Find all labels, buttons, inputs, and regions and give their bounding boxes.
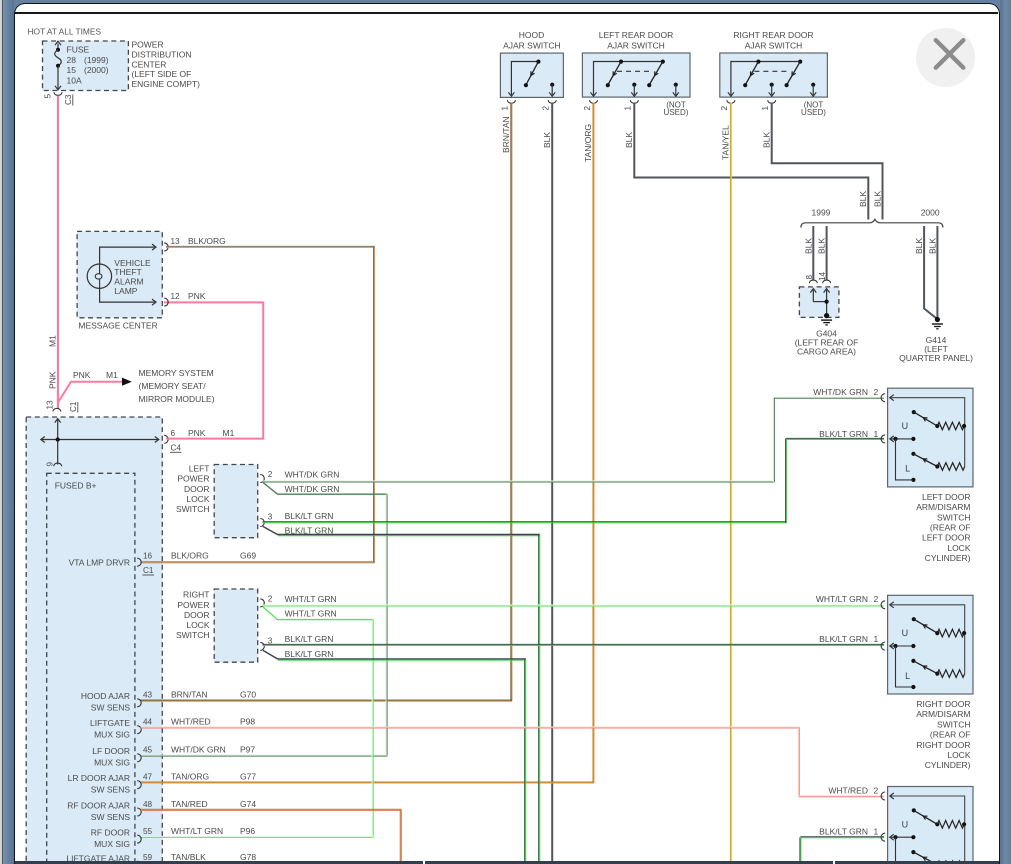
svg-text:BLK: BLK [624, 132, 634, 148]
wire BRN/TAN hood pin1 to module pin 43 (G70) [141, 103, 513, 702]
svg-text:BLK/LT GRN: BLK/LT GRN [285, 634, 334, 644]
svg-text:SW SENS: SW SENS [91, 785, 131, 795]
svg-text:MESSAGE CENTER: MESSAGE CENTER [78, 320, 157, 330]
right door pin 1 connector [881, 642, 885, 650]
wire BLK left rear pin1 to ground brace [634, 103, 868, 220]
wire PNK pin 6 to message center pin 12 [164, 302, 263, 438]
svg-text:PNK: PNK [73, 370, 91, 380]
svg-text:RIGHT: RIGHT [183, 590, 209, 600]
svg-text:1: 1 [761, 106, 770, 111]
svg-text:M1: M1 [106, 370, 118, 380]
svg-text:HOT AT ALL TIMES: HOT AT ALL TIMES [28, 27, 102, 37]
svg-text:FUSED B+: FUSED B+ [55, 481, 97, 491]
power distribution center fuse box [43, 41, 129, 91]
svg-text:SWITCH: SWITCH [176, 630, 210, 640]
svg-text:BLK/ORG: BLK/ORG [171, 551, 209, 561]
left gray edge [0, 0, 2, 864]
branch wire PNK to memory system [58, 382, 122, 403]
svg-text:G77: G77 [240, 772, 256, 782]
module pin 43 BRN/TAN G70 [81, 690, 256, 713]
wire BLK from hood pin2 down to bottom [551, 103, 553, 862]
left door pin 2 connector [881, 394, 885, 402]
svg-text:RF DOOR AJAR: RF DOOR AJAR [67, 800, 130, 810]
svg-text:14: 14 [818, 271, 827, 281]
svg-text:AJAR SWITCH: AJAR SWITCH [503, 40, 561, 50]
svg-text:2: 2 [542, 106, 551, 111]
svg-text:DOOR: DOOR [184, 610, 210, 620]
wire WHT/DK GRN (lower) pin2 to module pin 45 [141, 483, 388, 757]
svg-text:2: 2 [720, 106, 729, 111]
right door pin 2 connector [881, 601, 885, 609]
hood switch pin 2 connector [548, 100, 556, 103]
wire BLK/LT GRN from bottom to liftgate arm/disarm pin 1 [800, 837, 884, 862]
svg-text:C4: C4 [171, 444, 182, 453]
wire BLK 1999-b to G404 pin 14 [826, 226, 828, 281]
svg-text:WHT/LT GRN: WHT/LT GRN [285, 594, 337, 604]
label G414 (LEFT QUARTER PANEL) [899, 335, 973, 363]
svg-text:QUARTER PANEL): QUARTER PANEL) [899, 353, 973, 363]
svg-text:1: 1 [624, 106, 633, 111]
svg-text:48: 48 [143, 800, 153, 809]
wire TAN/ORG left rear pin2 to module pin 47 (G77) [141, 103, 595, 784]
svg-text:ARM/DISARM: ARM/DISARM [916, 709, 970, 719]
svg-text:TAN/ORG: TAN/ORG [171, 772, 209, 782]
right rear switch pin 2 connector [727, 100, 735, 103]
label MEMORY SYSTEM (MEMORY SEAT/ MIRROR MODULE) [139, 368, 215, 404]
connector C1 at module pin 13 [46, 400, 79, 413]
pin 9 connector on FUSED B+ box [54, 463, 62, 466]
label RIGHT POWER DOOR LOCK SWITCH [176, 590, 210, 640]
svg-text:MUX SIG: MUX SIG [94, 839, 130, 849]
svg-text:SW SENS: SW SENS [91, 812, 131, 822]
svg-text:BLK: BLK [817, 238, 827, 254]
svg-text:WHT/RED: WHT/RED [171, 717, 211, 727]
wire WHT/DK GRN (upper) pin2 to left arm/disarm pin 2 [263, 397, 885, 482]
svg-text:C3: C3 [64, 94, 73, 105]
wire TAN/YEL right rear pin2 down to bottom [730, 103, 731, 862]
svg-text:P97: P97 [240, 745, 255, 755]
right door lock switch pin 2 connector [260, 599, 264, 607]
svg-text:BLK/LT GRN: BLK/LT GRN [819, 827, 868, 837]
svg-text:DOOR: DOOR [184, 484, 210, 494]
left rear switch pin 1 connector [630, 100, 638, 103]
svg-text:2: 2 [874, 786, 879, 796]
wire BLK right rear pin1 to ground brace [772, 103, 883, 220]
wire BLK/LT GRN (lower) pin3 down at x539 [263, 527, 540, 862]
arrow to memory system [122, 378, 132, 386]
svg-text:55: 55 [143, 827, 153, 836]
svg-text:8: 8 [805, 275, 814, 280]
module pin 45 WHT/DK GRN P97 [92, 745, 255, 768]
svg-text:10A: 10A [67, 75, 82, 85]
svg-text:(2000): (2000) [84, 65, 109, 75]
svg-text:BLK/ORG: BLK/ORG [188, 236, 226, 246]
svg-text:MUX SIG: MUX SIG [94, 730, 130, 740]
wire BLK/LT GRN (lower) pin3 down at x525 [263, 650, 526, 861]
svg-text:44: 44 [143, 718, 153, 727]
bottom dark toolbar [15, 861, 999, 864]
module pin 44 WHT/RED P98 [90, 717, 255, 740]
wire BLK/LT GRN (upper) pin3 to left arm/disarm pin 1 [263, 438, 885, 522]
svg-text:BLK: BLK [914, 238, 924, 254]
svg-text:WHT/LT GRN: WHT/LT GRN [816, 594, 868, 604]
svg-text:1: 1 [874, 827, 879, 837]
module pin 16 connector C1, VTA LMP DRVR [69, 551, 257, 576]
wire WHT/RED pin 44 to liftgate arm/disarm pin 2 (P98) [141, 727, 885, 797]
message center pin 13 connector [164, 236, 226, 251]
hood switch pin 1 connector [507, 100, 515, 103]
wire BLK/ORG from message center pin 13 to module pin 16 (G69) [141, 246, 376, 563]
module pin 59 TAN/BLK G78 [66, 852, 256, 864]
svg-text:LAMP: LAMP [114, 286, 137, 296]
svg-text:LF DOOR: LF DOOR [92, 746, 130, 756]
module pin 55 WHT/LT GRN P96 [91, 826, 256, 849]
svg-text:SWITCH: SWITCH [937, 719, 971, 729]
liftgate pin 1 connector [881, 833, 885, 841]
svg-text:47: 47 [143, 773, 153, 782]
year split brace [801, 219, 943, 227]
svg-text:1999: 1999 [812, 207, 831, 217]
svg-text:LR DOOR AJAR: LR DOOR AJAR [68, 773, 130, 783]
svg-text:2: 2 [268, 594, 273, 603]
svg-text:2000: 2000 [921, 207, 940, 217]
connector C4 pin 6 PNK M1 [164, 428, 234, 453]
svg-text:2: 2 [874, 594, 879, 604]
wire TAN/RED pin 48 down (G74) [141, 809, 402, 861]
right rear switch pin 1 connector [768, 100, 776, 103]
svg-text:TAN/ORG: TAN/ORG [583, 124, 593, 162]
left door arm/disarm switch box [888, 388, 973, 487]
svg-text:RIGHT REAR DOOR: RIGHT REAR DOOR [733, 30, 813, 40]
svg-text:2: 2 [268, 470, 273, 479]
svg-text:LOCK: LOCK [186, 494, 209, 504]
svg-text:LEFT DOOR: LEFT DOOR [922, 533, 971, 543]
svg-text:BLK: BLK [872, 191, 882, 207]
svg-text:SW SENS: SW SENS [91, 703, 131, 713]
label LEFT POWER DOOR LOCK SWITCH [176, 464, 210, 514]
FUSED B+ inner dashed box [47, 473, 135, 864]
svg-text:MIRROR MODULE): MIRROR MODULE) [139, 394, 215, 404]
module pin 48 TAN/RED G74 [67, 799, 256, 822]
svg-text:BLK/LT GRN: BLK/LT GRN [285, 649, 334, 659]
svg-text:WHT/LT GRN: WHT/LT GRN [285, 608, 337, 618]
svg-text:MUX SIG: MUX SIG [94, 758, 130, 768]
connector C3 at fuse output, pin 5 [44, 92, 74, 105]
svg-text:13: 13 [46, 400, 55, 410]
svg-text:RIGHT DOOR: RIGHT DOOR [916, 699, 970, 709]
svg-text:SWITCH: SWITCH [937, 512, 971, 522]
svg-text:ARM/DISARM: ARM/DISARM [916, 502, 970, 512]
right power door lock switch dashed box [214, 589, 258, 662]
close (X) button [916, 28, 975, 87]
label VEHICLE THEFT ALARM LAMP [114, 258, 151, 296]
left rear switch pin 2 connector [590, 100, 598, 103]
svg-text:16: 16 [143, 552, 153, 561]
svg-text:AJAR SWITCH: AJAR SWITCH [607, 40, 665, 50]
svg-text:BLK: BLK [761, 132, 771, 148]
module pin 47 TAN/ORG G77 [68, 772, 257, 795]
svg-text:ENGINE COMPT): ENGINE COMPT) [132, 79, 201, 89]
wire BLK 2000-a to G414 [924, 226, 937, 319]
svg-text:L: L [905, 464, 910, 474]
svg-text:LIFTGATE: LIFTGATE [90, 718, 130, 728]
right door lock switch pin 3 connector [260, 642, 264, 650]
module internal arrow up from pin 13 [57, 420, 59, 465]
svg-text:RIGHT DOOR: RIGHT DOOR [916, 740, 970, 750]
svg-text:WHT/DK GRN: WHT/DK GRN [285, 470, 340, 480]
svg-text:1: 1 [874, 429, 879, 439]
svg-text:BLK/LT GRN: BLK/LT GRN [285, 511, 334, 521]
wire WHT/LT GRN (upper) pin2 to right arm/disarm pin 2 [263, 605, 885, 606]
right gray edge [1010, 0, 1011, 864]
wire BLK 1999-a to G404 pin 8 [812, 226, 814, 281]
hood ajar switch [500, 30, 563, 98]
top black rule [15, 12, 998, 14]
vehicle theft alarm lamp circuit wire [100, 247, 155, 264]
svg-text:LOCK: LOCK [186, 620, 209, 630]
svg-text:DISTRIBUTION: DISTRIBUTION [132, 49, 192, 59]
svg-text:M1: M1 [223, 428, 235, 438]
svg-text:BLK: BLK [803, 238, 813, 254]
svg-text:TAN/YEL: TAN/YEL [720, 125, 730, 160]
svg-text:G74: G74 [240, 799, 256, 809]
svg-text:43: 43 [143, 691, 153, 700]
svg-text:LEFT DOOR: LEFT DOOR [922, 492, 971, 502]
svg-text:2: 2 [874, 387, 879, 397]
connectors at G404 [809, 280, 817, 283]
G404 internal wires and ground [810, 289, 832, 325]
svg-text:BLK/LT GRN: BLK/LT GRN [285, 525, 334, 535]
svg-text:USED): USED) [801, 108, 826, 117]
svg-text:LEFT: LEFT [189, 464, 210, 474]
svg-text:G69: G69 [240, 551, 256, 561]
svg-text:CYLINDER): CYLINDER) [925, 760, 971, 770]
svg-text:USED): USED) [664, 108, 689, 117]
svg-text:CENTER: CENTER [132, 59, 167, 69]
svg-text:13: 13 [171, 237, 181, 246]
svg-text:C1: C1 [69, 401, 78, 412]
left rear door ajar switch [582, 30, 690, 97]
wire BLK/LT GRN (upper) pin3 to right arm/disarm pin 1 [263, 644, 885, 645]
right rear door ajar switch [720, 30, 828, 97]
liftgate pin 2 connector [881, 792, 885, 800]
label G404 (LEFT REAR OF CARGO AREA) [795, 329, 859, 357]
junction in module [56, 437, 60, 441]
caption LEFT DOOR ARM/DISARM SWITCH [916, 492, 971, 563]
left door lock switch pin 3 connector [260, 519, 264, 527]
svg-text:BRN/TAN: BRN/TAN [501, 116, 511, 153]
svg-text:BLK: BLK [927, 238, 937, 254]
svg-text:POWER: POWER [177, 474, 209, 484]
svg-text:9: 9 [46, 462, 55, 467]
svg-text:VTA LMP DRVR: VTA LMP DRVR [69, 558, 130, 568]
svg-text:HOOD AJAR: HOOD AJAR [81, 691, 130, 701]
svg-text:1: 1 [874, 634, 879, 644]
svg-text:3: 3 [268, 513, 273, 522]
svg-text:PNK: PNK [188, 291, 206, 301]
svg-text:PNK: PNK [48, 371, 58, 389]
message center pin 12 connector [164, 291, 206, 306]
left blue strip [3, 0, 14, 864]
svg-text:U: U [902, 421, 909, 431]
svg-text:BLK/LT GRN: BLK/LT GRN [819, 634, 868, 644]
svg-text:(1999): (1999) [84, 55, 109, 65]
svg-text:U: U [902, 628, 909, 638]
svg-text:15: 15 [67, 65, 77, 75]
svg-text:2: 2 [583, 106, 592, 111]
svg-text:WHT/DK GRN: WHT/DK GRN [171, 745, 226, 755]
svg-text:CYLINDER): CYLINDER) [925, 553, 971, 563]
top blue sliver [0, 0, 1011, 17]
svg-text:1: 1 [501, 106, 510, 111]
wire BLK 2000-b to G414 [936, 226, 938, 319]
svg-text:CARGO AREA): CARGO AREA) [797, 347, 856, 357]
svg-text:(REAR OF: (REAR OF [930, 730, 971, 740]
svg-text:SWITCH: SWITCH [176, 504, 210, 514]
wire WHT/LT GRN (lower) pin2 to module pin 55 [141, 607, 374, 838]
svg-text:12: 12 [171, 292, 181, 301]
svg-text:G70: G70 [240, 690, 256, 700]
svg-text:5: 5 [44, 94, 53, 99]
ground G414 [935, 317, 940, 322]
svg-text:POWER: POWER [177, 600, 209, 610]
svg-text:WHT/LT GRN: WHT/LT GRN [171, 826, 223, 836]
svg-text:HOOD: HOOD [519, 30, 545, 40]
module internal horizontal bus with arrows [42, 439, 158, 441]
svg-text:MEMORY SYSTEM: MEMORY SYSTEM [139, 368, 214, 378]
svg-text:LOCK: LOCK [947, 543, 970, 553]
svg-text:BLK: BLK [858, 191, 868, 207]
left door pin 1 connector [881, 435, 885, 443]
fuse text FUSE 28 (1999) 15 (2000) 10A [67, 44, 109, 85]
svg-text:BLK: BLK [542, 132, 552, 148]
svg-text:WHT/DK GRN: WHT/DK GRN [285, 484, 340, 494]
svg-text:P98: P98 [240, 717, 255, 727]
left power door lock switch dashed box [214, 465, 258, 538]
svg-text:6: 6 [171, 429, 176, 438]
ground G404 dashed box [799, 287, 839, 318]
svg-text:LEFT REAR DOOR: LEFT REAR DOOR [599, 30, 673, 40]
svg-text:L: L [905, 671, 910, 681]
message center dashed box [77, 231, 162, 317]
svg-text:(REAR OF: (REAR OF [930, 523, 971, 533]
label POWER DISTRIBUTION CENTER (LEFT SIDE OF ENGINE COMPT) [132, 40, 201, 90]
wire PNK from fuse to module pin 13 [57, 96, 59, 409]
svg-text:WHT/RED: WHT/RED [828, 786, 868, 796]
module (body control) outer dashed box [26, 417, 162, 864]
svg-text:C1: C1 [143, 566, 154, 575]
svg-text:45: 45 [143, 746, 153, 755]
caption RIGHT DOOR ARM/DISARM SWITCH [916, 699, 971, 770]
svg-text:BRN/TAN: BRN/TAN [171, 690, 208, 700]
right blue strip [1000, 0, 1010, 864]
svg-text:U: U [902, 819, 909, 829]
left door lock switch pin 2 connector [260, 475, 264, 483]
svg-text:PNK: PNK [188, 428, 206, 438]
svg-text:WHT/DK GRN: WHT/DK GRN [813, 387, 868, 397]
right door arm/disarm switch box [888, 595, 973, 694]
svg-text:LOCK: LOCK [947, 750, 970, 760]
svg-text:RF DOOR: RF DOOR [91, 828, 130, 838]
svg-text:28: 28 [67, 55, 77, 65]
liftgate arm/disarm switch box [888, 787, 973, 864]
svg-text:(MEMORY SEAT/: (MEMORY SEAT/ [139, 381, 207, 391]
svg-text:(LEFT SIDE OF: (LEFT SIDE OF [132, 69, 192, 79]
svg-text:P96: P96 [240, 826, 255, 836]
svg-text:BLK/LT GRN: BLK/LT GRN [819, 429, 868, 439]
svg-text:M1: M1 [48, 335, 58, 347]
svg-text:FUSE: FUSE [67, 44, 90, 54]
svg-text:AJAR SWITCH: AJAR SWITCH [745, 40, 803, 50]
vehicle theft alarm lamp symbol [87, 264, 111, 288]
svg-text:TAN/RED: TAN/RED [171, 799, 208, 809]
fuse element with arrows [55, 41, 62, 90]
svg-text:POWER: POWER [132, 40, 164, 50]
